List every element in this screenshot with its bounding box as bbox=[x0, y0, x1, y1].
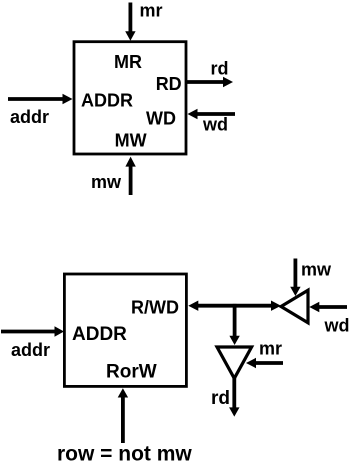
buffer U1 (write buffer, points left) bbox=[281, 290, 308, 323]
memory block M2 (bottom box) bbox=[64, 274, 186, 386]
net label wd bbox=[202, 115, 228, 135]
net label row = not mw bbox=[57, 443, 192, 466]
net label rd bbox=[211, 59, 229, 79]
svg-text:mw: mw bbox=[301, 260, 332, 280]
wire R/WD bus (bidirectional, box to buffer) bbox=[188, 301, 281, 311]
svg-text:mw: mw bbox=[91, 172, 122, 192]
pin label ADDR bbox=[81, 90, 133, 110]
svg-text:WD: WD bbox=[146, 108, 176, 128]
pin label RD bbox=[156, 74, 182, 94]
svg-text:addr: addr bbox=[10, 107, 49, 127]
svg-text:wd: wd bbox=[202, 115, 228, 135]
wire rd output (from buffer U2) bbox=[229, 378, 239, 417]
wire addr input (left, into bottom box) bbox=[1, 326, 64, 336]
wire mr enable (into buffer U2) bbox=[246, 358, 283, 368]
wire addr input (left, into box) bbox=[8, 94, 73, 104]
pin label MR bbox=[114, 52, 142, 72]
svg-text:rd: rd bbox=[211, 59, 229, 79]
wire mw input (bottom, into box) bbox=[125, 157, 135, 195]
net label mr bbox=[140, 1, 163, 21]
svg-text:mr: mr bbox=[140, 1, 163, 21]
net label mw bbox=[301, 260, 332, 280]
svg-text:wd: wd bbox=[324, 316, 350, 336]
svg-text:MW: MW bbox=[115, 131, 147, 151]
svg-text:MR: MR bbox=[114, 52, 142, 72]
buffer U2 (read buffer, points down) bbox=[217, 347, 252, 378]
memory block M1 (top box) bbox=[74, 42, 186, 154]
net label wd bbox=[324, 316, 350, 336]
pin label MW bbox=[115, 131, 147, 151]
svg-text:RD: RD bbox=[156, 74, 182, 94]
svg-text:rd: rd bbox=[211, 388, 230, 409]
wire mw enable (into buffer U1) bbox=[290, 259, 300, 297]
wire rd output (right, out of box) bbox=[186, 77, 233, 87]
svg-text:mr: mr bbox=[259, 339, 282, 359]
wire mr input (top, into box) bbox=[125, 3, 135, 41]
net label addr bbox=[11, 340, 50, 360]
pin label ADDR bbox=[72, 324, 127, 345]
wire wd input (right, into box) bbox=[188, 109, 236, 119]
pin label RorW bbox=[106, 362, 157, 383]
wire row input (bottom, into box) bbox=[118, 388, 128, 443]
pin label WD bbox=[146, 108, 176, 128]
wire wd input (into buffer U1) bbox=[309, 302, 347, 312]
wire branch to read buffer bbox=[229, 304, 239, 345]
svg-text:row = not mw: row = not mw bbox=[57, 443, 192, 466]
svg-text:R/WD: R/WD bbox=[131, 298, 179, 318]
svg-text:ADDR: ADDR bbox=[72, 324, 127, 345]
svg-text:RorW: RorW bbox=[106, 362, 157, 383]
net label rd bbox=[211, 388, 230, 409]
pin label R/WD bbox=[131, 298, 179, 318]
net label mr bbox=[259, 339, 282, 359]
svg-text:addr: addr bbox=[11, 340, 50, 360]
svg-text:ADDR: ADDR bbox=[81, 90, 133, 110]
net label addr bbox=[10, 107, 49, 127]
net label mw bbox=[91, 172, 122, 192]
